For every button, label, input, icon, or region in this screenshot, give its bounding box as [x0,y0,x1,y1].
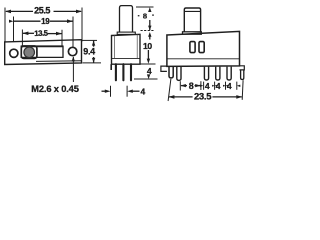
svg-text:13.5: 13.5 [34,29,49,38]
svg-text:8: 8 [189,81,194,91]
svg-text:4: 4 [141,87,146,97]
svg-text:4: 4 [227,81,232,91]
svg-text:23.5: 23.5 [194,91,212,102]
svg-text:9.4: 9.4 [83,47,95,57]
svg-text:10: 10 [143,41,152,51]
svg-text:19: 19 [41,17,50,26]
svg-text:4: 4 [147,66,152,76]
svg-text:4: 4 [216,81,221,91]
svg-text:25.5: 25.5 [34,5,50,15]
svg-text:8: 8 [143,12,147,21]
svg-text:M2.6 x 0.45: M2.6 x 0.45 [31,84,78,94]
svg-text:4: 4 [205,81,210,91]
